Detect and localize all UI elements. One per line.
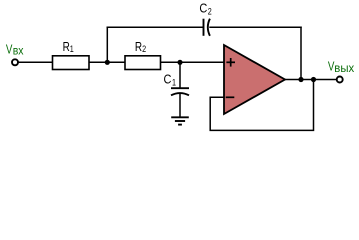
label R1 <box>63 41 75 55</box>
svg-text:C: C <box>199 1 207 16</box>
junction node B <box>177 60 182 65</box>
capacitor C2 <box>204 19 210 36</box>
svg-text:C: C <box>164 72 172 87</box>
wire input to R1 <box>18 61 52 63</box>
wire R2 to op-amp <box>161 61 225 63</box>
op-amp U1 <box>224 45 285 114</box>
svg-text:R: R <box>135 41 142 54</box>
resistor R1 <box>53 56 90 70</box>
wire R1 to R2 <box>89 61 125 63</box>
svg-text:вых: вых <box>334 62 354 75</box>
wire inverting feedback loop <box>210 80 313 131</box>
wire top feedback right segment <box>209 26 301 28</box>
wire node A up <box>106 27 108 63</box>
input terminal Vвх <box>12 59 18 65</box>
wire node B down to C1 <box>179 62 181 88</box>
capacitor C1 <box>171 88 189 95</box>
resistor R2 <box>125 56 161 70</box>
label Vвх <box>6 44 24 58</box>
svg-text:1: 1 <box>70 44 74 54</box>
svg-text:вх: вх <box>13 45 24 58</box>
label Vвых <box>328 60 354 75</box>
label R2 <box>135 41 147 55</box>
junction output C2 branch <box>298 77 303 82</box>
wire C1 to ground <box>179 93 181 117</box>
wire top feedback left segment <box>107 26 204 28</box>
label C2 <box>199 1 212 17</box>
ground <box>171 117 189 124</box>
wire output <box>285 79 337 81</box>
svg-text:2: 2 <box>142 44 146 54</box>
junction output feedback branch <box>311 77 316 82</box>
op-amp non-inverting input marking + <box>226 58 235 67</box>
junction node A <box>105 60 110 65</box>
op-amp inverting input marking − <box>226 96 235 98</box>
svg-text:2: 2 <box>208 7 212 17</box>
wire feedback down to output node <box>300 27 302 80</box>
label C1 <box>164 72 177 88</box>
svg-text:1: 1 <box>172 78 176 88</box>
svg-text:R: R <box>63 41 70 54</box>
output terminal Vвых <box>337 77 343 83</box>
svg-text:V: V <box>6 44 13 58</box>
